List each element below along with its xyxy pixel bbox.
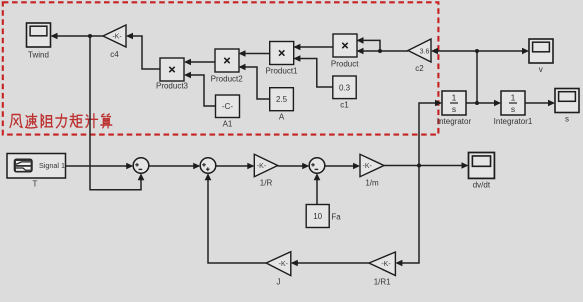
wire c4 output to Twind — [52, 35, 103, 37]
wire A output to Product2 lower input — [240, 67, 270, 99]
constant Fa — [306, 205, 341, 228]
gain J — [266, 252, 291, 287]
gain c2 — [408, 39, 431, 73]
wire c1 output to Product1 lower input — [295, 59, 333, 88]
svg-text:-K-: -K- — [279, 261, 289, 268]
node v-line top — [475, 49, 479, 53]
wire Product1 output to Product2 upper input — [240, 53, 270, 55]
arrow into c2 — [431, 48, 438, 55]
svg-text:c1: c1 — [340, 100, 349, 109]
arrow into Product2 upper — [239, 50, 246, 57]
arrow into 1/m — [353, 163, 360, 170]
svg-text:0.3: 0.3 — [339, 83, 351, 92]
product Product1 — [270, 42, 294, 65]
wire sum2 to 1/R — [216, 165, 253, 167]
signal generator T — [7, 154, 66, 189]
wire junction(90,36) down to sum1 bottom — [90, 36, 141, 190]
arrow into Integrator — [435, 100, 442, 107]
sum2 — [200, 158, 216, 174]
wire v-line to scope v — [477, 50, 528, 52]
wire vertical tap of integrator output — [476, 51, 478, 103]
gain 1/m — [360, 154, 384, 187]
label 风速阻力矩计算 (red caption) — [10, 114, 112, 128]
scope dv/dt — [469, 153, 495, 179]
wire A1 output to Product3 lower input — [186, 75, 216, 106]
svg-text:T: T — [33, 180, 38, 189]
arrow into Product3 lower — [184, 72, 191, 79]
svg-text:J: J — [277, 278, 281, 287]
arrow into dv/dt — [462, 162, 469, 169]
svg-text:-K-: -K- — [257, 163, 267, 170]
wire 1/R1 to J — [292, 262, 369, 264]
wire 1/R to sum3 — [278, 165, 308, 167]
svg-text:Product2: Product2 — [211, 75, 244, 84]
wind-torque subsystem dashed boundary — [3, 2, 439, 134]
arrow into Product lower — [357, 48, 364, 55]
wire Product2 output to Product3 upper input — [186, 61, 216, 63]
integrator Integrator — [442, 91, 466, 115]
svg-text:Integrator1: Integrator1 — [494, 117, 533, 126]
svg-text:Integrator: Integrator — [437, 117, 472, 126]
svg-text:Product1: Product1 — [265, 67, 298, 76]
wire branch to Product upper input — [358, 40, 380, 51]
wire Fa to sum3 bottom — [316, 176, 318, 205]
arrow into sum3 left — [302, 163, 309, 170]
计 — [86, 114, 98, 128]
arrow into Integrator1 — [494, 100, 501, 107]
wire Product output to Product1 upper input — [295, 46, 333, 48]
力 — [56, 114, 67, 128]
wire J output up to sum2 bottom — [208, 176, 266, 264]
node c4-Twind branch — [88, 34, 92, 38]
constant c1 — [333, 76, 356, 109]
矩 — [70, 114, 82, 127]
gain 1/R — [254, 154, 277, 187]
arrow into Twind — [51, 33, 58, 40]
svg-text:1/R: 1/R — [260, 179, 273, 188]
product Product2 — [215, 49, 239, 72]
arrow into sum2 bottom — [205, 173, 212, 180]
wire Integrator1 to scope s — [525, 102, 554, 104]
arrow into sum3 bottom — [314, 173, 321, 180]
wire sum3 to 1/m — [325, 165, 359, 167]
arrow into sum1 left — [126, 163, 133, 170]
sum3 — [309, 158, 325, 174]
scope v — [529, 39, 553, 63]
constant A1 — [216, 95, 240, 129]
svg-text:c2: c2 — [415, 64, 424, 73]
svg-text:Twind: Twind — [28, 51, 49, 60]
node Product input branch — [378, 49, 382, 53]
svg-text:Fa: Fa — [331, 213, 341, 222]
constant A — [270, 88, 294, 122]
wire junction to Integrator input — [419, 103, 441, 166]
svg-text:Product: Product — [331, 60, 359, 69]
arrow into Product1 lower — [293, 55, 300, 62]
arrow into scope s — [548, 100, 555, 107]
阻 — [41, 114, 52, 128]
arrow into 1/R — [247, 163, 254, 170]
svg-text:2.5: 2.5 — [276, 95, 288, 104]
svg-text:-K-: -K- — [363, 163, 373, 170]
product Product3 — [160, 58, 184, 81]
svg-text:-K-: -K- — [381, 261, 391, 268]
wire v-line to c2 input — [433, 50, 478, 52]
arrow into sum1 bottom — [138, 173, 145, 180]
svg-text:1/R1: 1/R1 — [374, 278, 391, 287]
svg-text:A: A — [279, 113, 285, 122]
arrow into c4 — [126, 33, 133, 40]
svg-text:10: 10 — [313, 212, 322, 221]
svg-text:Product3: Product3 — [156, 82, 189, 91]
算 — [101, 114, 112, 128]
node integrator output tap — [475, 101, 479, 105]
gain c4 — [103, 25, 126, 59]
wire Product3 output to c4 input — [128, 36, 161, 69]
sum1 — [133, 158, 149, 174]
wire junction down to 1/R1 input — [397, 166, 419, 264]
arrow into 1/R1 — [395, 260, 402, 267]
integrator Integrator1 — [501, 91, 525, 115]
wire 1/m to dv/dt scope — [384, 165, 467, 167]
svg-text:Signal 1: Signal 1 — [39, 161, 65, 170]
svg-text:v: v — [539, 65, 543, 74]
svg-text:A1: A1 — [223, 120, 233, 129]
wire Signal1 to sum1 — [66, 165, 132, 167]
scope s — [555, 89, 579, 113]
product Product — [333, 34, 357, 57]
arrow into Product2 lower — [239, 64, 246, 71]
arrow into J — [291, 260, 298, 267]
arrow into Product3 upper — [184, 59, 191, 66]
svg-text:1/m: 1/m — [365, 179, 379, 188]
wire c2 output to Product lower input — [358, 50, 408, 52]
arrow into scope v — [522, 48, 529, 55]
arrow into sum2 left — [193, 163, 200, 170]
svg-text:c4: c4 — [110, 50, 119, 59]
wire Integrator to Integrator1 — [466, 102, 500, 104]
svg-text:3.6: 3.6 — [420, 49, 430, 56]
arrow into Product1 upper — [293, 44, 300, 51]
svg-text:-K-: -K- — [112, 34, 122, 41]
风 — [10, 114, 22, 127]
wire sum1 to sum2 — [149, 165, 199, 167]
速 — [26, 114, 38, 128]
scope Twind — [27, 23, 51, 47]
svg-text:s: s — [565, 115, 569, 124]
arrow into Product upper — [357, 37, 364, 44]
node 1/m output tap — [417, 164, 421, 168]
svg-text:dv/dt: dv/dt — [473, 181, 491, 190]
gain 1/R1 — [369, 252, 395, 287]
svg-text:-C-: -C- — [222, 102, 233, 111]
